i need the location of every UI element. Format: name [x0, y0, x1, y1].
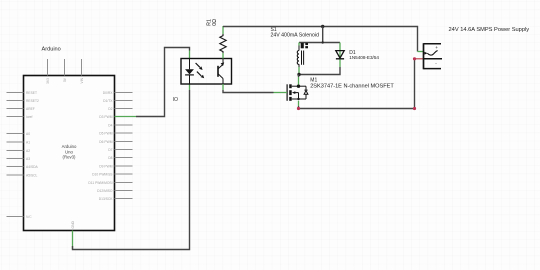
svg-text:D11 PWM/MOSI: D11 PWM/MOSI	[88, 181, 112, 185]
svg-text:A4/SDA: A4/SDA	[26, 165, 39, 169]
junction dot at MOSFET source corner (red)	[297, 107, 300, 110]
svg-text:D5 PWM: D5 PWM	[99, 131, 112, 135]
diode D1	[336, 43, 344, 68]
opto cathode pin stub	[189, 84, 191, 90]
svg-text:D8: D8	[108, 156, 112, 160]
pin D2	[108, 107, 132, 111]
pin A3	[7, 157, 31, 161]
pin A1	[7, 140, 31, 144]
pin D9 PWM	[99, 164, 132, 168]
label 24V SMPS supply	[449, 27, 530, 33]
pin D12/MISO	[97, 189, 132, 193]
junction on +24V rail	[321, 25, 324, 28]
pin D3 PWM	[99, 115, 136, 119]
pin A2	[7, 149, 31, 153]
resistor R1	[220, 26, 226, 53]
svg-text:A5/SCL: A5/SCL	[26, 173, 38, 177]
svg-text:RESET: RESET	[26, 91, 37, 95]
label D1 value	[349, 50, 379, 60]
opto anode pin stub	[189, 51, 191, 59]
svg-text:RESET2: RESET2	[26, 99, 39, 103]
wire gate net: opto emitter to gate	[223, 84, 287, 93]
wire solenoid-diode top rail	[299, 42, 340, 44]
svg-text:N/C: N/C	[26, 215, 32, 219]
svg-text:+: +	[435, 45, 438, 50]
svg-text:D13/SCK: D13/SCK	[99, 197, 114, 201]
optocoupler U1	[181, 59, 232, 85]
pin D10 PWM/SS	[92, 172, 132, 176]
pin D6 PWM	[99, 140, 132, 144]
pin D5 PWM	[99, 131, 132, 135]
wire +24V rail: R1 top to supply plus	[223, 27, 418, 52]
pin VIN	[80, 59, 84, 84]
wire net GND: opto cathode to Arduino GND	[73, 90, 190, 250]
svg-text:ioref: ioref	[26, 115, 32, 119]
svg-text:AREF: AREF	[26, 107, 35, 111]
svg-text:(Rev3): (Rev3)	[63, 154, 76, 159]
pin RESET2	[7, 99, 39, 103]
svg-text:24V 14.6A SMPS Power Supply: 24V 14.6A SMPS Power Supply	[449, 27, 530, 33]
solenoid S1	[297, 43, 308, 68]
pin 5V	[63, 59, 67, 82]
opto collector pin stub to R1	[222, 53, 224, 59]
svg-text:D2: D2	[108, 107, 112, 111]
svg-text:D4: D4	[108, 123, 112, 127]
pin D0/RX	[103, 91, 133, 95]
svg-text:A2: A2	[26, 149, 30, 153]
wire source net to supply minus	[299, 59, 415, 109]
svg-text:D1/TX: D1/TX	[103, 99, 113, 103]
junction dot rail corner top (red)	[413, 57, 416, 60]
junction at MOSFET drain	[297, 85, 300, 88]
pin GND	[71, 221, 75, 249]
junction solenoid/diode/drain	[297, 73, 300, 76]
pin AREF	[7, 107, 35, 111]
label M1 value	[310, 77, 394, 89]
solenoid bottom pin stub	[298, 67, 300, 75]
supply minus pin stub (red)	[415, 58, 424, 60]
pin ioref	[7, 115, 33, 119]
pin 3V3	[46, 59, 50, 84]
wire net IO: D3 to optocoupler anode	[136, 48, 190, 117]
transistor M1 N-channel MOSFET	[287, 84, 308, 101]
svg-text:M1: M1	[310, 77, 317, 83]
power supply J1 24V SMPS barrel jack	[424, 43, 443, 69]
svg-text:D10 PWM/SS: D10 PWM/SS	[92, 172, 113, 176]
pin A4/SDA	[7, 165, 39, 169]
svg-text:3V3: 3V3	[46, 78, 50, 84]
wire tap down to solenoid/diode rail	[322, 27, 324, 43]
svg-text:A1: A1	[26, 140, 30, 144]
pin D8	[108, 156, 132, 160]
junction on top rail	[322, 41, 324, 43]
svg-text:2SK3747-1E N-channel MOSFET: 2SK3747-1E N-channel MOSFET	[310, 84, 394, 90]
svg-text:D12/MISO: D12/MISO	[97, 189, 113, 193]
svg-text:24V 400mA Solenoid: 24V 400mA Solenoid	[271, 32, 320, 38]
svg-text:IO: IO	[173, 97, 178, 103]
wire drain pin up to junction	[298, 75, 300, 87]
svg-text:D6 PWM: D6 PWM	[99, 140, 112, 144]
junction at MOSFET source	[297, 98, 299, 100]
label R1 0 ohm, rotated	[206, 19, 217, 26]
svg-text:D3 PWM: D3 PWM	[99, 115, 112, 119]
node IO label	[173, 97, 178, 103]
svg-text:GND: GND	[71, 221, 75, 229]
svg-text:D0/RX: D0/RX	[103, 91, 114, 95]
pin N/C	[7, 215, 33, 219]
junction dot rail corner bottom (red)	[413, 107, 416, 110]
svg-text:VIN: VIN	[80, 77, 84, 83]
supply plus pin stub	[418, 51, 424, 53]
svg-text:A3: A3	[26, 157, 30, 161]
svg-text:A0: A0	[26, 132, 30, 136]
wire diode bottom to solenoid bottom junction	[299, 67, 340, 75]
pin D4	[108, 123, 132, 127]
pin A0	[7, 132, 31, 136]
pin D13/SCK	[99, 197, 133, 201]
pin D7	[108, 148, 132, 152]
pin D1/TX	[103, 99, 132, 103]
pin A5/SCL	[7, 173, 38, 177]
svg-text:D9 PWM: D9 PWM	[99, 164, 112, 168]
pin RESET	[7, 91, 38, 95]
svg-text:Arduino: Arduino	[42, 47, 61, 53]
svg-text:1N5408-E3/54: 1N5408-E3/54	[349, 55, 379, 60]
Arduino Uno module A1 body	[24, 47, 115, 231]
svg-text:0Ω: 0Ω	[212, 19, 218, 26]
pin D11 PWM/MOSI	[88, 181, 132, 185]
label S1 value	[271, 27, 320, 38]
svg-text:D7: D7	[108, 148, 112, 152]
